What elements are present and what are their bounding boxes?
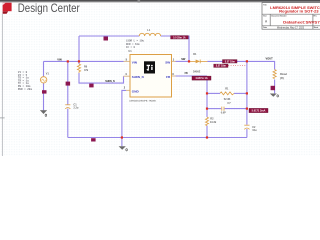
wire R6 top lead stub — [78, 61, 80, 64]
svg-text:Document Number: Document Number — [271, 15, 286, 18]
resistor R2 — [206, 117, 209, 126]
wire R1 right lead — [234, 92, 247, 94]
current probe on Rload column — [271, 86, 275, 90]
diode D1 — [190, 60, 208, 64]
svg-text:4.947m 1A: 4.947m 1A — [195, 77, 208, 80]
svg-text:VIN: VIN — [132, 60, 138, 64]
junction VOUT branch at output wire — [246, 60, 248, 62]
wire FB pin 3 row — [176, 75, 208, 77]
wire top rail left of L1 — [79, 35, 139, 37]
measurement readout on FB wire — [192, 76, 211, 80]
svg-text:LMR62014X/NOPB_TRANS: LMR62014X/NOPB_TRANS — [129, 99, 156, 102]
svg-text:5.0171 2mA: 5.0171 2mA — [252, 110, 266, 113]
ground 0 under V1 — [40, 111, 47, 117]
wire SW pin to D1 anode — [176, 60, 190, 62]
svg-text:Size: Size — [263, 16, 266, 18]
inductor L1 — [139, 33, 160, 36]
title block frame — [262, 3, 320, 30]
voltage probe on SHDN_N wire — [89, 84, 93, 88]
svg-text:FB: FB — [185, 73, 188, 75]
pin 1 SW stub — [172, 60, 176, 62]
current probe on bottom rail — [91, 138, 96, 141]
svg-text:VIN: VIN — [57, 57, 61, 61]
svg-text:5.0 25m 1A: 5.0 25m 1A — [173, 36, 186, 39]
svg-text:13.3k: 13.3k — [210, 121, 217, 124]
svg-text:SW: SW — [181, 57, 186, 61]
svg-text:Design Center: Design Center — [18, 2, 80, 15]
junction C7 right at VOUT vertical — [246, 108, 248, 110]
voltage source V1 — [40, 77, 46, 83]
svg-text:Date: Date — [263, 26, 267, 29]
svg-text:3.37 18m: 3.37 18m — [216, 65, 226, 68]
V1 pulse parameter labels — [18, 71, 32, 91]
U1 pin name labels — [132, 60, 171, 93]
junction R1 right at VOUT vertical — [246, 92, 248, 94]
title block red title text — [270, 6, 320, 24]
L1 value labels — [126, 40, 145, 49]
capacitor C1 — [65, 105, 70, 109]
wire GND pin 2 column to ground — [122, 90, 126, 146]
capacitor C2 — [244, 125, 249, 129]
measurement readout on VOUT wire — [223, 60, 238, 64]
wire riser VIN rail to top rail — [78, 36, 80, 61]
svg-text:GND: GND — [132, 89, 140, 93]
svg-text:{R}: {R} — [280, 77, 284, 80]
pin 5 VIN stub — [124, 60, 131, 62]
capacitor C7 — [222, 107, 224, 111]
wire C1 branch lower — [67, 109, 69, 138]
svg-text:3.37 18m: 3.37 18m — [225, 60, 235, 63]
wire feedback left vertical FB to R2 — [206, 76, 208, 117]
junction GND column at bottom rail — [121, 136, 123, 138]
op-amp U1 LMR62014 body — [130, 55, 172, 98]
wire V1 top column — [43, 61, 45, 76]
ground 0 under Rload — [270, 94, 279, 98]
pin 4 SHDN_N stub — [124, 75, 131, 77]
junction C1 branch at VIN rail — [67, 60, 69, 62]
U1 pin number labels 5 4 2 1 3 — [124, 58, 175, 89]
wire Rload bottom column — [274, 80, 276, 94]
current probe on top rail — [104, 37, 109, 41]
junction R1 left at feedback vertical — [206, 92, 208, 94]
current probe on C1 branch — [66, 82, 71, 86]
svg-text:SW: SW — [165, 60, 170, 64]
svg-text:Regulator in SOT-23 B: Regulator in SOT-23 B — [279, 10, 320, 14]
svg-text:2.2u: 2.2u — [73, 107, 78, 110]
measurement readout on L1 rail — [171, 36, 189, 40]
svg-text:SHDN_N: SHDN_N — [132, 75, 144, 79]
svg-text:10u: 10u — [252, 129, 257, 132]
wire V1 bottom column to ground — [43, 83, 45, 110]
svg-text:Sheet: Sheet — [314, 26, 319, 29]
svg-text:SHDN_N: SHDN_N — [105, 81, 115, 83]
svg-text:Title: Title — [263, 3, 266, 6]
pin 3 FB stub — [172, 75, 176, 77]
svg-text:Rev: Rev — [314, 16, 317, 18]
wire R2 bottom lead to rail — [206, 126, 208, 138]
svg-text:D400E: D400E — [193, 71, 201, 74]
current probe on V1 column — [42, 90, 47, 93]
svg-text:Wednesday, May 17, 2023: Wednesday, May 17, 2023 — [277, 28, 305, 30]
svg-text:PER = 20m: PER = 20m — [18, 88, 32, 91]
U1 TI logo badge — [144, 61, 155, 73]
resistor Rload — [273, 70, 276, 79]
pin 2 GND stub — [126, 89, 130, 91]
title block field labels — [263, 3, 318, 29]
junction C7 left at feedback vertical — [206, 108, 208, 110]
ground 0 on bottom rail — [119, 146, 128, 151]
junction top rail riser at SW wire — [188, 60, 190, 62]
wire top rail right of L1 down to SW node — [161, 36, 189, 61]
wire R6 bottom to SHDN_N pin 4 — [79, 73, 124, 83]
wire VOUT branch vertical to C2 — [246, 61, 248, 125]
svg-text:IC = 0: IC = 0 — [126, 46, 136, 49]
resistor R1 — [220, 92, 234, 95]
junction R6 riser at VIN rail — [78, 60, 80, 62]
svg-text:VOUT: VOUT — [266, 57, 274, 61]
svg-text:0.6P: 0.6P — [221, 111, 226, 114]
resistor R6 — [77, 64, 80, 73]
logo red flag — [0, 3, 12, 156]
measurement readout at VOUT divider node — [249, 108, 268, 112]
svg-text:Rload: Rload — [280, 73, 287, 76]
wire D1 cathode to VOUT corner — [207, 61, 274, 69]
wire C1 branch upper — [67, 61, 69, 104]
wire C2 bottom lead to rail — [246, 129, 248, 138]
wire C7 right lead — [225, 108, 247, 110]
wire C7 left lead — [207, 108, 221, 110]
wire R1 left lead — [207, 92, 220, 94]
svg-text:Datasheet:SNVS72: Datasheet:SNVS72 — [283, 20, 320, 24]
measurement readout with dotted leader to VOUT node — [214, 64, 247, 68]
svg-text:52.3K: 52.3K — [224, 98, 231, 101]
wire bottom ground rail — [68, 137, 247, 139]
svg-text:47k: 47k — [84, 69, 89, 72]
wire VIN rail V1 to U1 pin 5 — [44, 60, 124, 62]
junction R2 at bottom rail — [206, 136, 208, 138]
